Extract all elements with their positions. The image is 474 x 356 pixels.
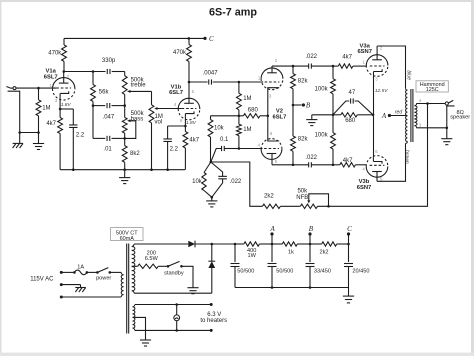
svg-text:2k2: 2k2 bbox=[319, 250, 328, 256]
wire V1b cathode to cap bbox=[168, 125, 186, 127]
junction bus 2 bbox=[271, 286, 274, 289]
resistor 400 1W bbox=[235, 243, 244, 245]
chassis ground AC bbox=[80, 285, 82, 288]
resistor 1M input bbox=[38, 88, 40, 100]
svg-text:47: 47 bbox=[349, 90, 356, 96]
wire V2a plate row bbox=[272, 65, 309, 67]
wire V2b plate row bbox=[272, 164, 309, 166]
svg-text:1.8V: 1.8V bbox=[61, 102, 72, 108]
triode V2b envelope bbox=[261, 149, 282, 159]
junction bus 3 bbox=[309, 286, 312, 289]
wire D1 to B+ bbox=[195, 243, 212, 245]
node B terminal bbox=[302, 103, 305, 106]
junction 100k top bbox=[332, 65, 335, 68]
svg-text:50k: 50k bbox=[297, 188, 308, 194]
svg-text:10k: 10k bbox=[192, 179, 203, 185]
svg-text:B: B bbox=[306, 101, 311, 109]
junction 82k bottom bbox=[292, 164, 295, 167]
switch power bbox=[96, 271, 99, 274]
AC terminal hot bbox=[60, 271, 63, 274]
junction 56k top bbox=[92, 70, 95, 73]
svg-text:1M: 1M bbox=[243, 96, 251, 102]
capacitor 33/450 bbox=[309, 244, 311, 262]
ground standby bbox=[187, 287, 198, 289]
svg-text:82k: 82k bbox=[298, 136, 309, 142]
wire plate to tone stack bbox=[64, 71, 106, 73]
svg-text:.022: .022 bbox=[230, 179, 242, 185]
junction node B rail bbox=[309, 243, 312, 246]
AC terminal neutral bbox=[60, 283, 63, 286]
junction NFB wiper bbox=[327, 205, 330, 208]
wire NFB to speaker bbox=[318, 104, 428, 207]
V3a cathode bbox=[374, 69, 383, 71]
svg-text:8k2: 8k2 bbox=[130, 151, 140, 157]
ground PI tail bbox=[211, 197, 213, 201]
junction V1b plate bbox=[188, 81, 191, 84]
svg-text:A: A bbox=[381, 112, 387, 120]
svg-text:brown: brown bbox=[403, 150, 409, 164]
junction node C rail bbox=[347, 243, 350, 246]
V3a grid bbox=[370, 65, 385, 67]
PT core bbox=[126, 244, 128, 334]
node C terminal bbox=[203, 37, 206, 40]
ground filter bbox=[348, 288, 350, 296]
capacitor 2.2 V1b bbox=[167, 126, 169, 139]
triode V2a envelope bbox=[261, 68, 283, 79]
V2b grid bbox=[264, 148, 279, 150]
svg-text:.022: .022 bbox=[305, 155, 317, 161]
wire node A to OPT bbox=[389, 115, 407, 117]
capacitor .01 bbox=[93, 137, 105, 139]
junction V1a plate bbox=[63, 70, 66, 73]
heater terminal bottom bbox=[210, 329, 213, 332]
svg-text:10k: 10k bbox=[214, 126, 225, 132]
junction 1M grid bbox=[238, 147, 241, 150]
svg-text:100k: 100k bbox=[315, 133, 329, 139]
ground input 1M bbox=[38, 133, 40, 144]
junction V1b cathode bbox=[184, 125, 187, 128]
svg-text:.022: .022 bbox=[305, 54, 317, 60]
triode V3b envelope bbox=[366, 166, 388, 177]
ground speaker bbox=[446, 128, 448, 139]
wire V1b plate to cap bbox=[189, 81, 208, 83]
input jack tip bbox=[6, 87, 12, 89]
heater terminal top bbox=[210, 303, 213, 306]
resistor 4k7 V1b bbox=[184, 126, 186, 132]
wire hot to fuse bbox=[61, 271, 74, 273]
wire B+ to cap1 bbox=[212, 243, 235, 245]
svg-text:60mA: 60mA bbox=[120, 236, 135, 242]
wire HV top bbox=[134, 243, 188, 245]
resistor 10k tail bbox=[204, 162, 211, 173]
svg-text:33/450: 33/450 bbox=[314, 268, 331, 274]
svg-text:blue: blue bbox=[406, 70, 412, 80]
svg-text:2.2: 2.2 bbox=[76, 132, 85, 138]
resistor 680 PI bbox=[243, 114, 260, 118]
V3a plate bbox=[372, 59, 382, 61]
svg-text:680: 680 bbox=[345, 118, 356, 124]
capacitor .022 upper bbox=[308, 64, 310, 69]
junction 82k top bbox=[292, 65, 295, 68]
capacitor 50/500 second bbox=[271, 244, 273, 262]
svg-text:4k7: 4k7 bbox=[342, 55, 352, 61]
svg-text:C: C bbox=[347, 225, 352, 233]
svg-text:.0047: .0047 bbox=[203, 70, 219, 76]
svg-text:125C: 125C bbox=[426, 87, 439, 93]
wire B+ rail to node C bbox=[64, 37, 205, 39]
wire heater top bbox=[135, 304, 211, 306]
pot 500k bass bbox=[122, 118, 127, 134]
svg-text:NFB: NFB bbox=[296, 195, 308, 201]
resistor 2k2 filter bbox=[322, 242, 337, 246]
svg-text:standby: standby bbox=[164, 271, 184, 277]
fuse 1A bbox=[73, 271, 76, 274]
wire switch to primary bbox=[110, 271, 121, 273]
svg-text:4k7: 4k7 bbox=[343, 158, 353, 164]
V1b plate bbox=[184, 102, 194, 104]
wire 10k top row bbox=[211, 115, 239, 117]
label blue bbox=[406, 70, 412, 80]
chassis ground input bbox=[19, 133, 21, 144]
svg-text:6SL7: 6SL7 bbox=[44, 74, 58, 80]
svg-text:0.1: 0.1 bbox=[220, 137, 229, 143]
junction 1M pair bbox=[238, 115, 241, 118]
capacitor .047 bbox=[106, 103, 108, 108]
PT HV winding bbox=[132, 244, 135, 293]
ground tone stack bbox=[124, 170, 126, 178]
svg-text:1k: 1k bbox=[288, 250, 294, 256]
svg-text:6SN7: 6SN7 bbox=[357, 185, 372, 191]
AC terminal line2 bbox=[60, 296, 63, 299]
node B filter bbox=[309, 236, 311, 245]
bass wiper bbox=[127, 119, 130, 122]
resistor 4k7 V3a grid bbox=[338, 64, 353, 68]
capacitor 47 bbox=[333, 101, 349, 115]
junction V1b 470k top bbox=[188, 37, 191, 40]
junction 2.2 bottom V1b bbox=[166, 168, 169, 171]
V1a plate bbox=[59, 82, 69, 84]
wire node B bbox=[293, 104, 302, 106]
speaker jack sleeve bbox=[447, 106, 455, 128]
PT heater winding bbox=[133, 305, 135, 331]
wire heater bottom bbox=[135, 329, 211, 331]
pot 500k treble bbox=[122, 76, 127, 95]
pot 1M vol bbox=[151, 91, 153, 104]
svg-text:2k2: 2k2 bbox=[264, 194, 274, 200]
treble wiper bbox=[127, 90, 130, 93]
label 500V CT box bbox=[111, 228, 143, 241]
svg-text:6SN7: 6SN7 bbox=[357, 49, 372, 55]
capacitor .022 lower bbox=[308, 162, 310, 167]
V1b cathode bbox=[185, 111, 194, 113]
wire HV bottom bbox=[134, 292, 212, 294]
svg-text:power: power bbox=[96, 276, 111, 282]
svg-text:vol: vol bbox=[155, 119, 163, 125]
ground 100k junction bbox=[312, 114, 333, 116]
junction node B stub bbox=[292, 104, 295, 107]
resistor 470k V1b bbox=[188, 38, 190, 44]
OPT core bbox=[410, 89, 412, 142]
ground heater CT bbox=[140, 339, 151, 341]
svg-text:1.8V: 1.8V bbox=[186, 120, 197, 126]
wire secondary top bbox=[416, 103, 445, 105]
svg-text:115V AC: 115V AC bbox=[30, 277, 54, 283]
svg-text:6S-7 amp: 6S-7 amp bbox=[209, 7, 257, 19]
resistor 4k7 V3b grid bbox=[340, 163, 356, 167]
svg-text:100k: 100k bbox=[315, 86, 329, 92]
capacitor .022 tail bbox=[211, 162, 223, 176]
capacitor 20/450 bbox=[348, 244, 350, 262]
junction V3 cathode bbox=[372, 114, 375, 117]
diode D1 bbox=[188, 241, 195, 248]
junction sleeve corner bbox=[18, 131, 21, 134]
junction 1M top bbox=[37, 87, 40, 90]
wire NFB to tail bbox=[211, 162, 263, 206]
capacitor 0.1 bbox=[211, 149, 222, 163]
svg-text:50/500: 50/500 bbox=[237, 268, 254, 274]
junction 56k bottom bbox=[92, 104, 95, 107]
resistor 100k upper bbox=[332, 66, 334, 79]
junction lamp bottom bbox=[175, 329, 178, 332]
wire V3b plate to OPT bbox=[377, 143, 406, 181]
junction vol bottom bbox=[150, 168, 153, 171]
resistor 1k filter bbox=[282, 242, 297, 246]
NFB wiper bbox=[307, 200, 310, 203]
svg-text:A: A bbox=[269, 225, 275, 233]
resistor 4k7 V1a bbox=[58, 118, 63, 134]
node A terminal bbox=[388, 114, 391, 117]
svg-text:.01: .01 bbox=[103, 146, 112, 152]
svg-text:.047: .047 bbox=[103, 115, 115, 121]
V2a plate bbox=[267, 72, 277, 74]
diode D2 bbox=[211, 244, 213, 261]
svg-text:speaker: speaker bbox=[450, 115, 470, 121]
capacitor 330p bbox=[106, 69, 108, 74]
capacitor 2.2 V1a bbox=[72, 109, 74, 125]
resistor 470k V1a bbox=[63, 38, 65, 45]
svg-text:20/450: 20/450 bbox=[352, 268, 369, 274]
capacitor 50/500 first bbox=[234, 244, 236, 262]
svg-text:680: 680 bbox=[248, 107, 259, 113]
wire neutral bbox=[61, 284, 80, 286]
svg-text:1M: 1M bbox=[42, 105, 50, 111]
junction lamp top bbox=[175, 303, 178, 306]
svg-text:1A: 1A bbox=[77, 265, 84, 271]
junction 100k bottom bbox=[332, 164, 335, 167]
V1a cathode bbox=[60, 91, 69, 93]
V3b plate bbox=[372, 171, 382, 173]
wire secondary bottom bbox=[416, 127, 446, 129]
svg-text:470k: 470k bbox=[173, 50, 187, 56]
V2b plate bbox=[267, 153, 277, 155]
svg-text:treble: treble bbox=[131, 83, 147, 89]
pot 50k NFB bbox=[300, 204, 317, 208]
wire fuse to switch bbox=[87, 271, 98, 273]
svg-text:red: red bbox=[395, 110, 402, 116]
wire input ground link bbox=[20, 132, 39, 134]
wire V1a cathode to cap bbox=[60, 108, 73, 110]
V3b grid bbox=[370, 164, 385, 166]
wire HV CT bbox=[132, 265, 138, 267]
resistor 1M upper PI bbox=[238, 82, 240, 93]
triode V1b envelope bbox=[178, 98, 200, 109]
PT primary winding bbox=[121, 272, 123, 297]
triode V1a envelope bbox=[53, 78, 75, 89]
V1a grid bbox=[56, 87, 71, 89]
wire cathode link V3 bbox=[373, 115, 375, 156]
resistor 1M lower PI bbox=[238, 116, 240, 124]
pilot lamp bbox=[176, 305, 178, 316]
resistor 2k2 NFB bbox=[262, 204, 280, 208]
input jack sleeve bbox=[8, 91, 20, 132]
switch standby bbox=[167, 265, 170, 268]
wire cathode ground bus bbox=[60, 169, 185, 171]
junction cap1 bbox=[234, 243, 237, 246]
resistor 100k lower bbox=[332, 115, 334, 133]
svg-text:6SL7: 6SL7 bbox=[169, 90, 183, 96]
wire 56k to .01 row bbox=[92, 106, 94, 139]
Hammond 125C box bbox=[416, 81, 448, 92]
wire filter ground bus bbox=[235, 287, 349, 289]
svg-text:4k7: 4k7 bbox=[46, 121, 56, 127]
V1b grid bbox=[182, 108, 197, 110]
junction V1a cathode bbox=[59, 108, 62, 111]
svg-text:1W: 1W bbox=[248, 253, 257, 259]
junction bass bottom bbox=[123, 137, 126, 140]
wire cap to V2 grid bbox=[213, 81, 264, 83]
speaker jack tip bbox=[445, 102, 448, 105]
wire heater CT bbox=[133, 317, 146, 339]
junction speaker ground bbox=[446, 127, 449, 130]
svg-text:4k7: 4k7 bbox=[189, 138, 199, 144]
junction tail ground bbox=[211, 196, 214, 199]
V3b cathode bbox=[373, 162, 382, 164]
junction 100k mid bbox=[332, 114, 335, 117]
svg-text:12.5V: 12.5V bbox=[375, 88, 388, 94]
svg-text:2.2: 2.2 bbox=[170, 147, 179, 153]
svg-text:to heaters: to heaters bbox=[200, 318, 227, 324]
capacitor .0047 bbox=[208, 79, 210, 84]
junction NFB tap bbox=[426, 102, 429, 105]
junction 2.2 bottom V1a bbox=[72, 168, 75, 171]
wire 200 to standby bbox=[158, 265, 168, 267]
wire standby to ground bbox=[182, 266, 194, 287]
V2a grid bbox=[265, 81, 280, 83]
svg-text:6.5W: 6.5W bbox=[145, 256, 159, 262]
junction B+ node bbox=[211, 243, 214, 246]
resistor 10k upper bbox=[210, 116, 212, 120]
wire .047 row bbox=[93, 105, 105, 107]
resistor 56k bbox=[92, 72, 94, 85]
resistor 680 V3 bbox=[333, 114, 341, 116]
svg-text:bass: bass bbox=[131, 116, 144, 122]
resistor 82k upper bbox=[292, 66, 294, 74]
svg-text:6SL7: 6SL7 bbox=[272, 114, 286, 120]
wire to V2 lower grid bbox=[239, 148, 263, 150]
junction PI tail bbox=[210, 161, 213, 164]
resistor 200 6.5W bbox=[138, 264, 159, 268]
OPT secondary winding bbox=[414, 104, 417, 128]
label brown bbox=[403, 150, 409, 164]
svg-text:C: C bbox=[209, 35, 214, 43]
resistor 82k lower bbox=[291, 136, 296, 151]
svg-text:82k: 82k bbox=[298, 78, 309, 84]
vol wiper to V1b grid bbox=[154, 107, 157, 110]
svg-text:330p: 330p bbox=[102, 58, 116, 64]
wire V3a plate to OPT bbox=[377, 46, 405, 88]
wire line2 to primary bbox=[61, 296, 121, 298]
svg-text:470k: 470k bbox=[48, 51, 62, 57]
svg-text:50/500: 50/500 bbox=[276, 268, 293, 274]
junction node A rail bbox=[271, 243, 274, 246]
svg-text:1M: 1M bbox=[243, 127, 251, 133]
OPT primary winding bbox=[406, 88, 408, 90]
svg-text:B: B bbox=[309, 225, 314, 233]
wire 2k2 to pot bbox=[280, 205, 300, 207]
junction 8k2 bottom bbox=[123, 168, 126, 171]
junction 1M top PI bbox=[238, 81, 241, 84]
junction 1M bottom bbox=[37, 131, 40, 134]
V2 cathode bracket bbox=[268, 88, 279, 141]
resistor 8k2 bbox=[124, 138, 126, 145]
junction treble bottom bbox=[123, 104, 126, 107]
triode V3a envelope bbox=[366, 55, 388, 66]
node A filter bbox=[271, 236, 273, 245]
svg-text:56k: 56k bbox=[99, 90, 110, 96]
node C filter bbox=[348, 236, 350, 245]
junction 680 cathode bbox=[267, 115, 270, 118]
